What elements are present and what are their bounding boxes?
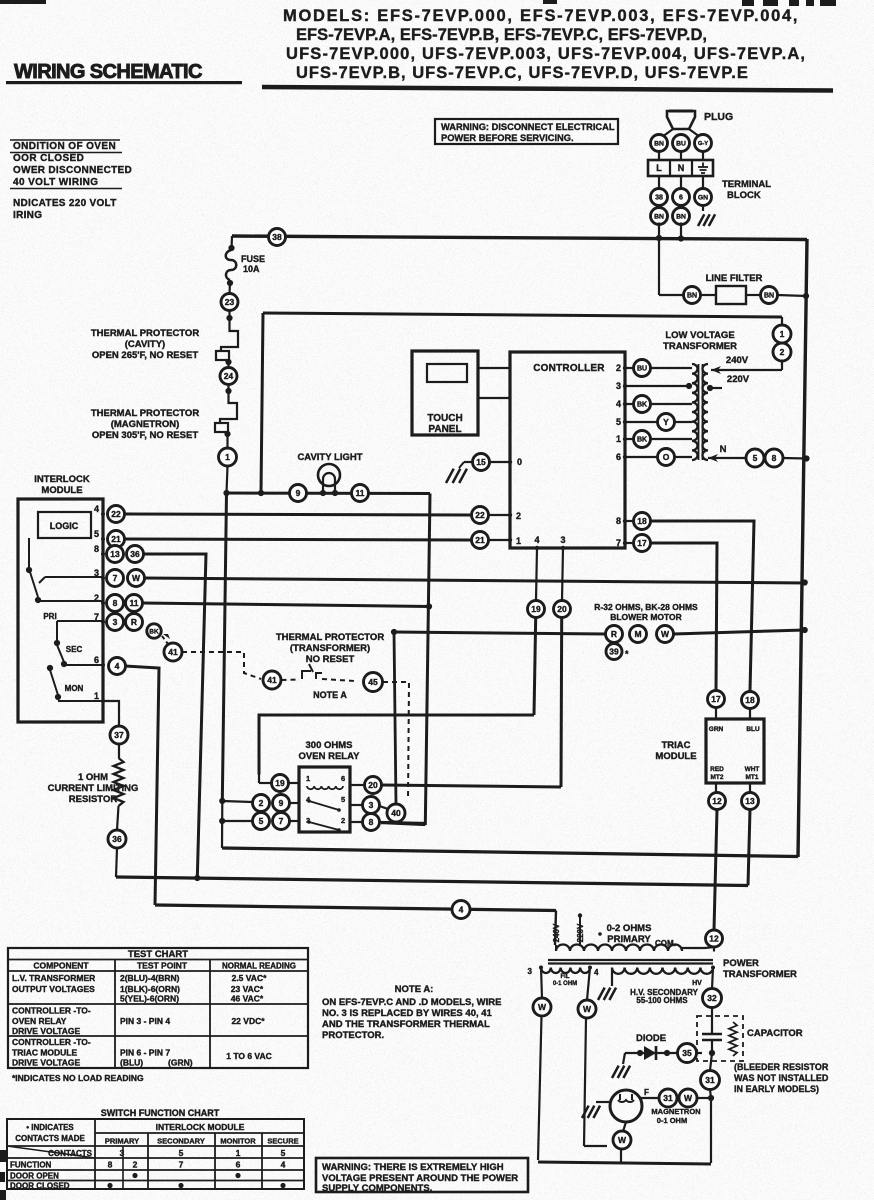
svg-text:M: M bbox=[634, 629, 641, 639]
svg-text:L: L bbox=[656, 163, 662, 173]
svg-text:THERMAL PROTECTOR: THERMAL PROTECTOR bbox=[91, 408, 200, 419]
svg-text:TRIAC MODULE: TRIAC MODULE bbox=[12, 1048, 77, 1058]
svg-text:11: 11 bbox=[130, 598, 139, 608]
svg-text:4: 4 bbox=[94, 504, 99, 514]
svg-text:N: N bbox=[678, 163, 685, 173]
svg-text:CONTACTS MADE: CONTACTS MADE bbox=[15, 1134, 85, 1143]
svg-text:40 VOLT WIRING: 40 VOLT WIRING bbox=[13, 177, 98, 188]
svg-text:BN: BN bbox=[676, 213, 686, 220]
svg-text:PIN 3 - PIN 4: PIN 3 - PIN 4 bbox=[120, 1016, 170, 1026]
svg-text:MON: MON bbox=[65, 684, 84, 693]
svg-text:13: 13 bbox=[110, 549, 120, 559]
svg-text:*: * bbox=[625, 649, 629, 659]
svg-text:CAPACITOR: CAPACITOR bbox=[747, 1028, 803, 1039]
svg-text:(TRANSFORMER): (TRANSFORMER) bbox=[290, 643, 370, 654]
svg-text:TRANSFORMER: TRANSFORMER bbox=[723, 969, 797, 980]
svg-text:4: 4 bbox=[616, 399, 621, 409]
svg-text:NORMAL READING: NORMAL READING bbox=[222, 962, 296, 971]
svg-text:2(BLU)-4(BRN): 2(BLU)-4(BRN) bbox=[120, 973, 180, 983]
svg-text:MT1: MT1 bbox=[746, 774, 759, 781]
svg-text:DIODE: DIODE bbox=[636, 1033, 666, 1044]
svg-text:17: 17 bbox=[637, 538, 647, 548]
svg-text:NDICATES 220 VOLT: NDICATES 220 VOLT bbox=[13, 198, 117, 209]
svg-text:46 VAC*: 46 VAC* bbox=[231, 994, 264, 1004]
svg-text:2: 2 bbox=[133, 1160, 138, 1170]
svg-text:PRIMARY: PRIMARY bbox=[105, 1137, 139, 1146]
svg-text:TERMINAL: TERMINAL bbox=[722, 179, 771, 190]
svg-text:O: O bbox=[663, 452, 670, 462]
svg-text:4: 4 bbox=[115, 661, 120, 671]
svg-text:1: 1 bbox=[94, 691, 99, 701]
svg-text:12: 12 bbox=[712, 796, 722, 806]
svg-text:PANEL: PANEL bbox=[428, 424, 461, 435]
svg-text:21: 21 bbox=[475, 535, 485, 545]
svg-text:TRANSFORMER: TRANSFORMER bbox=[663, 341, 737, 352]
svg-text:24: 24 bbox=[224, 371, 234, 381]
svg-text:1 TO 6 VAC: 1 TO 6 VAC bbox=[226, 1051, 272, 1061]
svg-text:WARNING: THERE IS EXTREMELY HI: WARNING: THERE IS EXTREMELY HIGH bbox=[322, 1162, 504, 1173]
svg-text:7: 7 bbox=[113, 573, 118, 583]
svg-text:41: 41 bbox=[267, 675, 277, 685]
svg-text:35: 35 bbox=[682, 1048, 692, 1058]
svg-text:DRIVE VOLTAGE: DRIVE VOLTAGE bbox=[12, 1026, 80, 1036]
svg-text:OVEN RELAY: OVEN RELAY bbox=[299, 751, 361, 762]
svg-text:PROTECTOR.: PROTECTOR. bbox=[322, 1030, 384, 1041]
svg-text:31: 31 bbox=[663, 1093, 673, 1103]
svg-text:BN: BN bbox=[654, 140, 664, 147]
svg-text:GN: GN bbox=[698, 194, 708, 201]
svg-text:39: 39 bbox=[609, 647, 619, 657]
svg-text:(BLEEDER RESISTOR: (BLEEDER RESISTOR bbox=[734, 1062, 829, 1072]
svg-text:BK: BK bbox=[637, 437, 647, 444]
svg-text:MAGNETRON: MAGNETRON bbox=[651, 1107, 700, 1116]
svg-text:41: 41 bbox=[168, 647, 178, 657]
svg-text:12: 12 bbox=[709, 934, 719, 944]
svg-text:AND THE TRANSFORMER THERMAL: AND THE TRANSFORMER THERMAL bbox=[322, 1019, 490, 1030]
svg-text:OPEN 305'F, NO RESET: OPEN 305'F, NO RESET bbox=[92, 430, 198, 441]
svg-text:DOOR CLOSED: DOOR CLOSED bbox=[10, 1182, 70, 1191]
svg-text:COMPONENT: COMPONENT bbox=[33, 961, 89, 971]
svg-text:38: 38 bbox=[272, 232, 282, 242]
svg-text:38: 38 bbox=[655, 195, 663, 202]
svg-text:W: W bbox=[618, 1135, 627, 1145]
svg-text:9: 9 bbox=[296, 488, 301, 498]
svg-text:RESISTOR: RESISTOR bbox=[69, 794, 118, 805]
svg-text:4: 4 bbox=[594, 968, 599, 977]
svg-text:220V: 220V bbox=[727, 374, 750, 385]
svg-text:LOGIC: LOGIC bbox=[50, 521, 79, 531]
svg-text:(MAGNETRON): (MAGNETRON) bbox=[111, 419, 180, 430]
svg-text:40: 40 bbox=[391, 808, 401, 818]
svg-text:36: 36 bbox=[130, 549, 140, 559]
svg-text:5: 5 bbox=[753, 453, 758, 463]
svg-text:19: 19 bbox=[275, 778, 285, 788]
svg-text:OOR CLOSED: OOR CLOSED bbox=[13, 153, 84, 164]
svg-text:23: 23 bbox=[225, 297, 235, 307]
svg-text:SEC: SEC bbox=[66, 645, 83, 654]
svg-text:OVEN RELAY: OVEN RELAY bbox=[12, 1016, 67, 1026]
svg-text:8: 8 bbox=[772, 453, 777, 463]
svg-text:OPEN 265'F, NO RESET: OPEN 265'F, NO RESET bbox=[92, 350, 198, 361]
svg-text:2: 2 bbox=[341, 816, 345, 825]
svg-text:INTERLOCK MODULE: INTERLOCK MODULE bbox=[156, 1122, 245, 1132]
svg-text:18: 18 bbox=[637, 516, 647, 526]
svg-text:18: 18 bbox=[745, 695, 755, 705]
svg-text:11: 11 bbox=[356, 488, 365, 498]
svg-text:BU: BU bbox=[637, 366, 647, 373]
svg-text:LINE FILTER: LINE FILTER bbox=[706, 273, 763, 284]
svg-text:37: 37 bbox=[114, 730, 124, 740]
svg-text:UFS-7EVP.000, UFS-7EVP.003, UF: UFS-7EVP.000, UFS-7EVP.003, UFS-7EVP.004… bbox=[286, 45, 806, 63]
svg-text:0-1 OHM: 0-1 OHM bbox=[657, 1116, 687, 1125]
svg-text:5(YEL)-6(ORN): 5(YEL)-6(ORN) bbox=[120, 994, 179, 1004]
svg-text:CONTROLLER: CONTROLLER bbox=[533, 363, 605, 374]
svg-text:240V: 240V bbox=[726, 355, 749, 366]
svg-text:20: 20 bbox=[368, 780, 378, 790]
svg-text:2: 2 bbox=[780, 347, 785, 357]
svg-text:240V: 240V bbox=[552, 923, 561, 942]
svg-text:1: 1 bbox=[780, 329, 785, 339]
svg-text:MODULE: MODULE bbox=[655, 751, 696, 762]
svg-text:17: 17 bbox=[711, 694, 721, 704]
svg-text:5: 5 bbox=[179, 1148, 184, 1158]
svg-text:8: 8 bbox=[369, 817, 374, 827]
svg-text:6: 6 bbox=[94, 655, 99, 665]
svg-text:(CAVITY): (CAVITY) bbox=[125, 339, 165, 350]
svg-text:20: 20 bbox=[557, 604, 567, 614]
svg-text:2: 2 bbox=[616, 363, 621, 373]
svg-text:7: 7 bbox=[179, 1160, 184, 1170]
svg-text:W: W bbox=[661, 629, 670, 639]
svg-text:POWER BEFORE SERVICING.: POWER BEFORE SERVICING. bbox=[441, 133, 574, 143]
svg-text:3: 3 bbox=[528, 967, 533, 976]
svg-text:7: 7 bbox=[279, 816, 284, 826]
svg-text:TOUCH: TOUCH bbox=[427, 413, 462, 424]
svg-text:3: 3 bbox=[120, 1148, 125, 1158]
svg-text:22: 22 bbox=[111, 509, 121, 519]
svg-text:3: 3 bbox=[560, 535, 565, 545]
svg-text:2: 2 bbox=[259, 798, 264, 808]
svg-text:1: 1 bbox=[236, 1148, 241, 1158]
svg-text:THERMAL PROTECTOR: THERMAL PROTECTOR bbox=[276, 632, 385, 643]
svg-text:DRIVE VOLTAGE: DRIVE VOLTAGE bbox=[12, 1058, 80, 1068]
svg-text:5: 5 bbox=[341, 795, 345, 804]
svg-text:TRIAC: TRIAC bbox=[661, 740, 690, 751]
svg-text:UFS-7EVP.B, UFS-7EVP.C, UFS-7E: UFS-7EVP.B, UFS-7EVP.C, UFS-7EVP.D, UFS-… bbox=[296, 64, 749, 82]
svg-text:MODELS: EFS-7EVP.000, EFS-7EVP: MODELS: EFS-7EVP.000, EFS-7EVP.003, EFS-… bbox=[283, 7, 799, 25]
svg-text:6: 6 bbox=[616, 452, 621, 462]
svg-text:5: 5 bbox=[259, 816, 264, 826]
svg-text:R: R bbox=[131, 617, 137, 627]
svg-text:TEST POINT: TEST POINT bbox=[137, 961, 188, 971]
svg-text:*INDICATES NO LOAD READING: *INDICATES NO LOAD READING bbox=[12, 1073, 144, 1083]
svg-text:W: W bbox=[583, 1004, 592, 1014]
svg-text:3: 3 bbox=[113, 617, 118, 627]
svg-text:WARNING: DISCONNECT ELECTRICAL: WARNING: DISCONNECT ELECTRICAL bbox=[441, 122, 615, 132]
svg-text:IRING: IRING bbox=[13, 210, 42, 221]
svg-text:TEST CHART: TEST CHART bbox=[128, 949, 188, 960]
svg-text:RED: RED bbox=[710, 766, 724, 773]
svg-text:1: 1 bbox=[516, 536, 521, 546]
svg-text:FIL: FIL bbox=[561, 974, 570, 980]
svg-text:BN: BN bbox=[654, 213, 664, 220]
svg-text:2: 2 bbox=[516, 511, 521, 521]
svg-text:WHT: WHT bbox=[745, 766, 760, 773]
svg-text:0: 0 bbox=[517, 457, 522, 467]
svg-text:1 OHM: 1 OHM bbox=[78, 772, 108, 783]
svg-text:BK: BK bbox=[149, 628, 159, 635]
svg-text:HV: HV bbox=[692, 980, 702, 987]
svg-text:ON EFS-7EVP.C AND .D MODELS, W: ON EFS-7EVP.C AND .D MODELS, WIRE bbox=[322, 997, 501, 1008]
svg-text:BN: BN bbox=[764, 293, 774, 300]
svg-text:13: 13 bbox=[745, 796, 755, 806]
svg-text:WAS NOT INSTALLED: WAS NOT INSTALLED bbox=[734, 1073, 829, 1083]
svg-text:4: 4 bbox=[459, 905, 464, 915]
svg-text:BN: BN bbox=[687, 293, 697, 300]
svg-text:EFS-7EVP.A, EFS-7EVP.B, EFS-7E: EFS-7EVP.A, EFS-7EVP.B, EFS-7EVP.C, EFS-… bbox=[296, 26, 707, 44]
svg-text:ONDITION OF OVEN: ONDITION OF OVEN bbox=[13, 141, 116, 152]
svg-text:DOOR OPEN: DOOR OPEN bbox=[10, 1172, 59, 1181]
svg-text:• INDICATES: • INDICATES bbox=[26, 1123, 74, 1132]
svg-text:2.5 VAC*: 2.5 VAC* bbox=[232, 973, 267, 983]
svg-text:9: 9 bbox=[279, 798, 284, 808]
svg-text:15: 15 bbox=[476, 457, 486, 467]
svg-text:0-2 OHMS: 0-2 OHMS bbox=[607, 923, 652, 934]
svg-text:CONTROLLER -TO-: CONTROLLER -TO- bbox=[12, 1006, 91, 1016]
svg-text:OWER DISCONNECTED: OWER DISCONNECTED bbox=[13, 165, 132, 176]
svg-text:BLU: BLU bbox=[746, 726, 760, 733]
svg-text:IN EARLY MODELS): IN EARLY MODELS) bbox=[734, 1084, 819, 1094]
svg-text:INTERLOCK: INTERLOCK bbox=[34, 474, 90, 485]
svg-text:6: 6 bbox=[341, 774, 345, 783]
svg-text:BLOCK: BLOCK bbox=[727, 190, 761, 201]
svg-text:POWER: POWER bbox=[723, 958, 759, 969]
svg-text:32: 32 bbox=[707, 993, 717, 1003]
svg-text:SECURE: SECURE bbox=[267, 1137, 298, 1146]
svg-text:NOTE A:: NOTE A: bbox=[395, 984, 434, 995]
svg-text:1: 1 bbox=[225, 452, 230, 462]
svg-text:(BLU): (BLU) bbox=[120, 1058, 143, 1068]
svg-text:PRIMARY: PRIMARY bbox=[607, 934, 651, 945]
svg-text:W: W bbox=[684, 1093, 693, 1103]
svg-text:36: 36 bbox=[112, 834, 122, 844]
svg-text:BU: BU bbox=[676, 140, 686, 147]
svg-text:NO RESET: NO RESET bbox=[306, 654, 355, 665]
svg-text:300 OHMS: 300 OHMS bbox=[306, 740, 353, 751]
svg-text:W: W bbox=[538, 1002, 547, 1012]
svg-text:Y: Y bbox=[663, 417, 669, 427]
svg-text:7: 7 bbox=[616, 538, 621, 548]
svg-text:L.V. TRANSFORMER: L.V. TRANSFORMER bbox=[12, 973, 95, 983]
svg-text:THERMAL PROTECTOR: THERMAL PROTECTOR bbox=[91, 328, 200, 339]
svg-text:1: 1 bbox=[616, 434, 621, 444]
svg-text:4: 4 bbox=[281, 1160, 286, 1170]
svg-text:8: 8 bbox=[113, 598, 118, 608]
svg-text:19: 19 bbox=[531, 604, 541, 614]
svg-text:5: 5 bbox=[94, 529, 99, 539]
svg-text:55-100 OHMS: 55-100 OHMS bbox=[636, 996, 688, 1005]
svg-text:22 VDC*: 22 VDC* bbox=[231, 1016, 265, 1026]
svg-text:PRI: PRI bbox=[43, 612, 56, 621]
svg-text:CAVITY LIGHT: CAVITY LIGHT bbox=[297, 452, 362, 463]
svg-text:6: 6 bbox=[236, 1160, 241, 1170]
svg-text:PIN 6 - PIN 7: PIN 6 - PIN 7 bbox=[120, 1048, 170, 1058]
svg-text:22: 22 bbox=[475, 510, 485, 520]
svg-text:COM.: COM. bbox=[655, 939, 676, 948]
svg-text:1(BLK)-6(ORN): 1(BLK)-6(ORN) bbox=[120, 984, 180, 994]
svg-text:W: W bbox=[132, 573, 141, 583]
svg-text:10A: 10A bbox=[243, 264, 260, 274]
svg-text:CONTROLLER -TO-: CONTROLLER -TO- bbox=[12, 1037, 91, 1047]
svg-text:8: 8 bbox=[616, 516, 621, 526]
svg-text:4: 4 bbox=[534, 535, 539, 545]
svg-text:31: 31 bbox=[705, 1075, 715, 1085]
svg-text:5: 5 bbox=[616, 417, 621, 427]
svg-text:3: 3 bbox=[616, 381, 621, 391]
svg-text:FUNCTION: FUNCTION bbox=[10, 1161, 52, 1170]
svg-text:WIRING SCHEMATIC: WIRING SCHEMATIC bbox=[14, 61, 202, 83]
svg-text:NO. 3 IS REPLACED BY WIRES 40,: NO. 3 IS REPLACED BY WIRES 40, 41 bbox=[322, 1008, 493, 1019]
svg-text:(GRN): (GRN) bbox=[168, 1058, 193, 1068]
svg-text:SWITCH FUNCTION CHART: SWITCH FUNCTION CHART bbox=[101, 1108, 220, 1118]
svg-text:MODULE: MODULE bbox=[41, 485, 82, 496]
svg-text:N: N bbox=[720, 444, 727, 455]
svg-text:R-32 OHMS, BK-28 OHMS: R-32 OHMS, BK-28 OHMS bbox=[594, 602, 698, 612]
svg-text:GRN: GRN bbox=[709, 726, 724, 733]
svg-text:45: 45 bbox=[368, 677, 378, 687]
svg-text:SECONDARY: SECONDARY bbox=[157, 1137, 205, 1146]
svg-text:F: F bbox=[644, 1088, 649, 1097]
svg-text:MONITOR: MONITOR bbox=[220, 1137, 256, 1146]
svg-text:BK: BK bbox=[637, 402, 647, 409]
svg-text:BLOWER MOTOR: BLOWER MOTOR bbox=[610, 612, 682, 622]
svg-text:CONTACTS: CONTACTS bbox=[48, 1149, 93, 1158]
svg-text:5: 5 bbox=[281, 1148, 286, 1158]
svg-text:MT2: MT2 bbox=[711, 774, 724, 781]
svg-text:8: 8 bbox=[94, 544, 99, 554]
svg-text:FUSE: FUSE bbox=[241, 254, 265, 264]
svg-text:R: R bbox=[611, 629, 617, 639]
svg-text:3: 3 bbox=[369, 800, 374, 810]
svg-text:CURRENT LIMITING: CURRENT LIMITING bbox=[48, 783, 139, 794]
svg-text:SUPPLY COMPONENTS.: SUPPLY COMPONENTS. bbox=[322, 1183, 432, 1194]
svg-text:6: 6 bbox=[679, 195, 683, 202]
svg-text:NOTE A: NOTE A bbox=[313, 690, 347, 700]
svg-text:21: 21 bbox=[111, 534, 121, 544]
svg-text:OUTPUT VOLTAGES: OUTPUT VOLTAGES bbox=[12, 984, 95, 994]
svg-text:LOW VOLTAGE: LOW VOLTAGE bbox=[665, 330, 734, 341]
svg-text:0-1 OHM: 0-1 OHM bbox=[553, 981, 577, 987]
svg-text:G-Y: G-Y bbox=[698, 141, 708, 147]
svg-text:8: 8 bbox=[108, 1160, 113, 1170]
svg-text:1: 1 bbox=[306, 774, 310, 783]
svg-text:PLUG: PLUG bbox=[704, 111, 733, 123]
svg-text:23 VAC*: 23 VAC* bbox=[231, 984, 264, 994]
